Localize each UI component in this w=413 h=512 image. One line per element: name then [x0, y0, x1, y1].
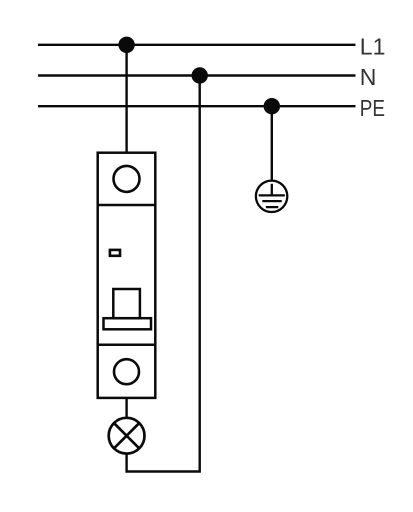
earth electrode circle [256, 181, 287, 212]
wire L1 to breaker [125, 45, 127, 153]
wire breaker to lamp [125, 398, 127, 418]
earth symbol stem [271, 184, 273, 196]
lamp E1 cross stroke 1 [114, 423, 139, 448]
wire PE bus line [38, 105, 356, 107]
circuit breaker upper divider [98, 204, 156, 207]
node N junction dot [192, 67, 208, 83]
circuit breaker bottom terminal circle [114, 359, 139, 384]
wire PE to earth electrode [271, 106, 273, 181]
wire N bus line [38, 74, 356, 76]
earth symbol bar 2 [262, 200, 281, 202]
circuit breaker toggle base [104, 318, 152, 329]
svg-text:N: N [360, 64, 377, 90]
earth symbol bar 1 [259, 194, 285, 196]
circuit breaker top terminal circle [114, 166, 140, 192]
earth symbol bar 3 [266, 206, 278, 208]
circuit breaker toggle lever [113, 289, 140, 318]
lamp E1 cross stroke 2 [114, 423, 139, 448]
svg-text:PE: PE [360, 95, 385, 121]
wire L1 bus line [38, 44, 356, 46]
node PE junction dot [264, 98, 280, 114]
lamp E1 circle [109, 418, 145, 454]
circuit breaker lower divider [98, 344, 156, 347]
wire lamp return to N [127, 76, 200, 472]
circuit breaker F1 outline [98, 153, 156, 398]
circuit breaker indicator window [110, 250, 120, 256]
node L1 junction dot [118, 37, 134, 53]
svg-text:L1: L1 [360, 33, 386, 59]
